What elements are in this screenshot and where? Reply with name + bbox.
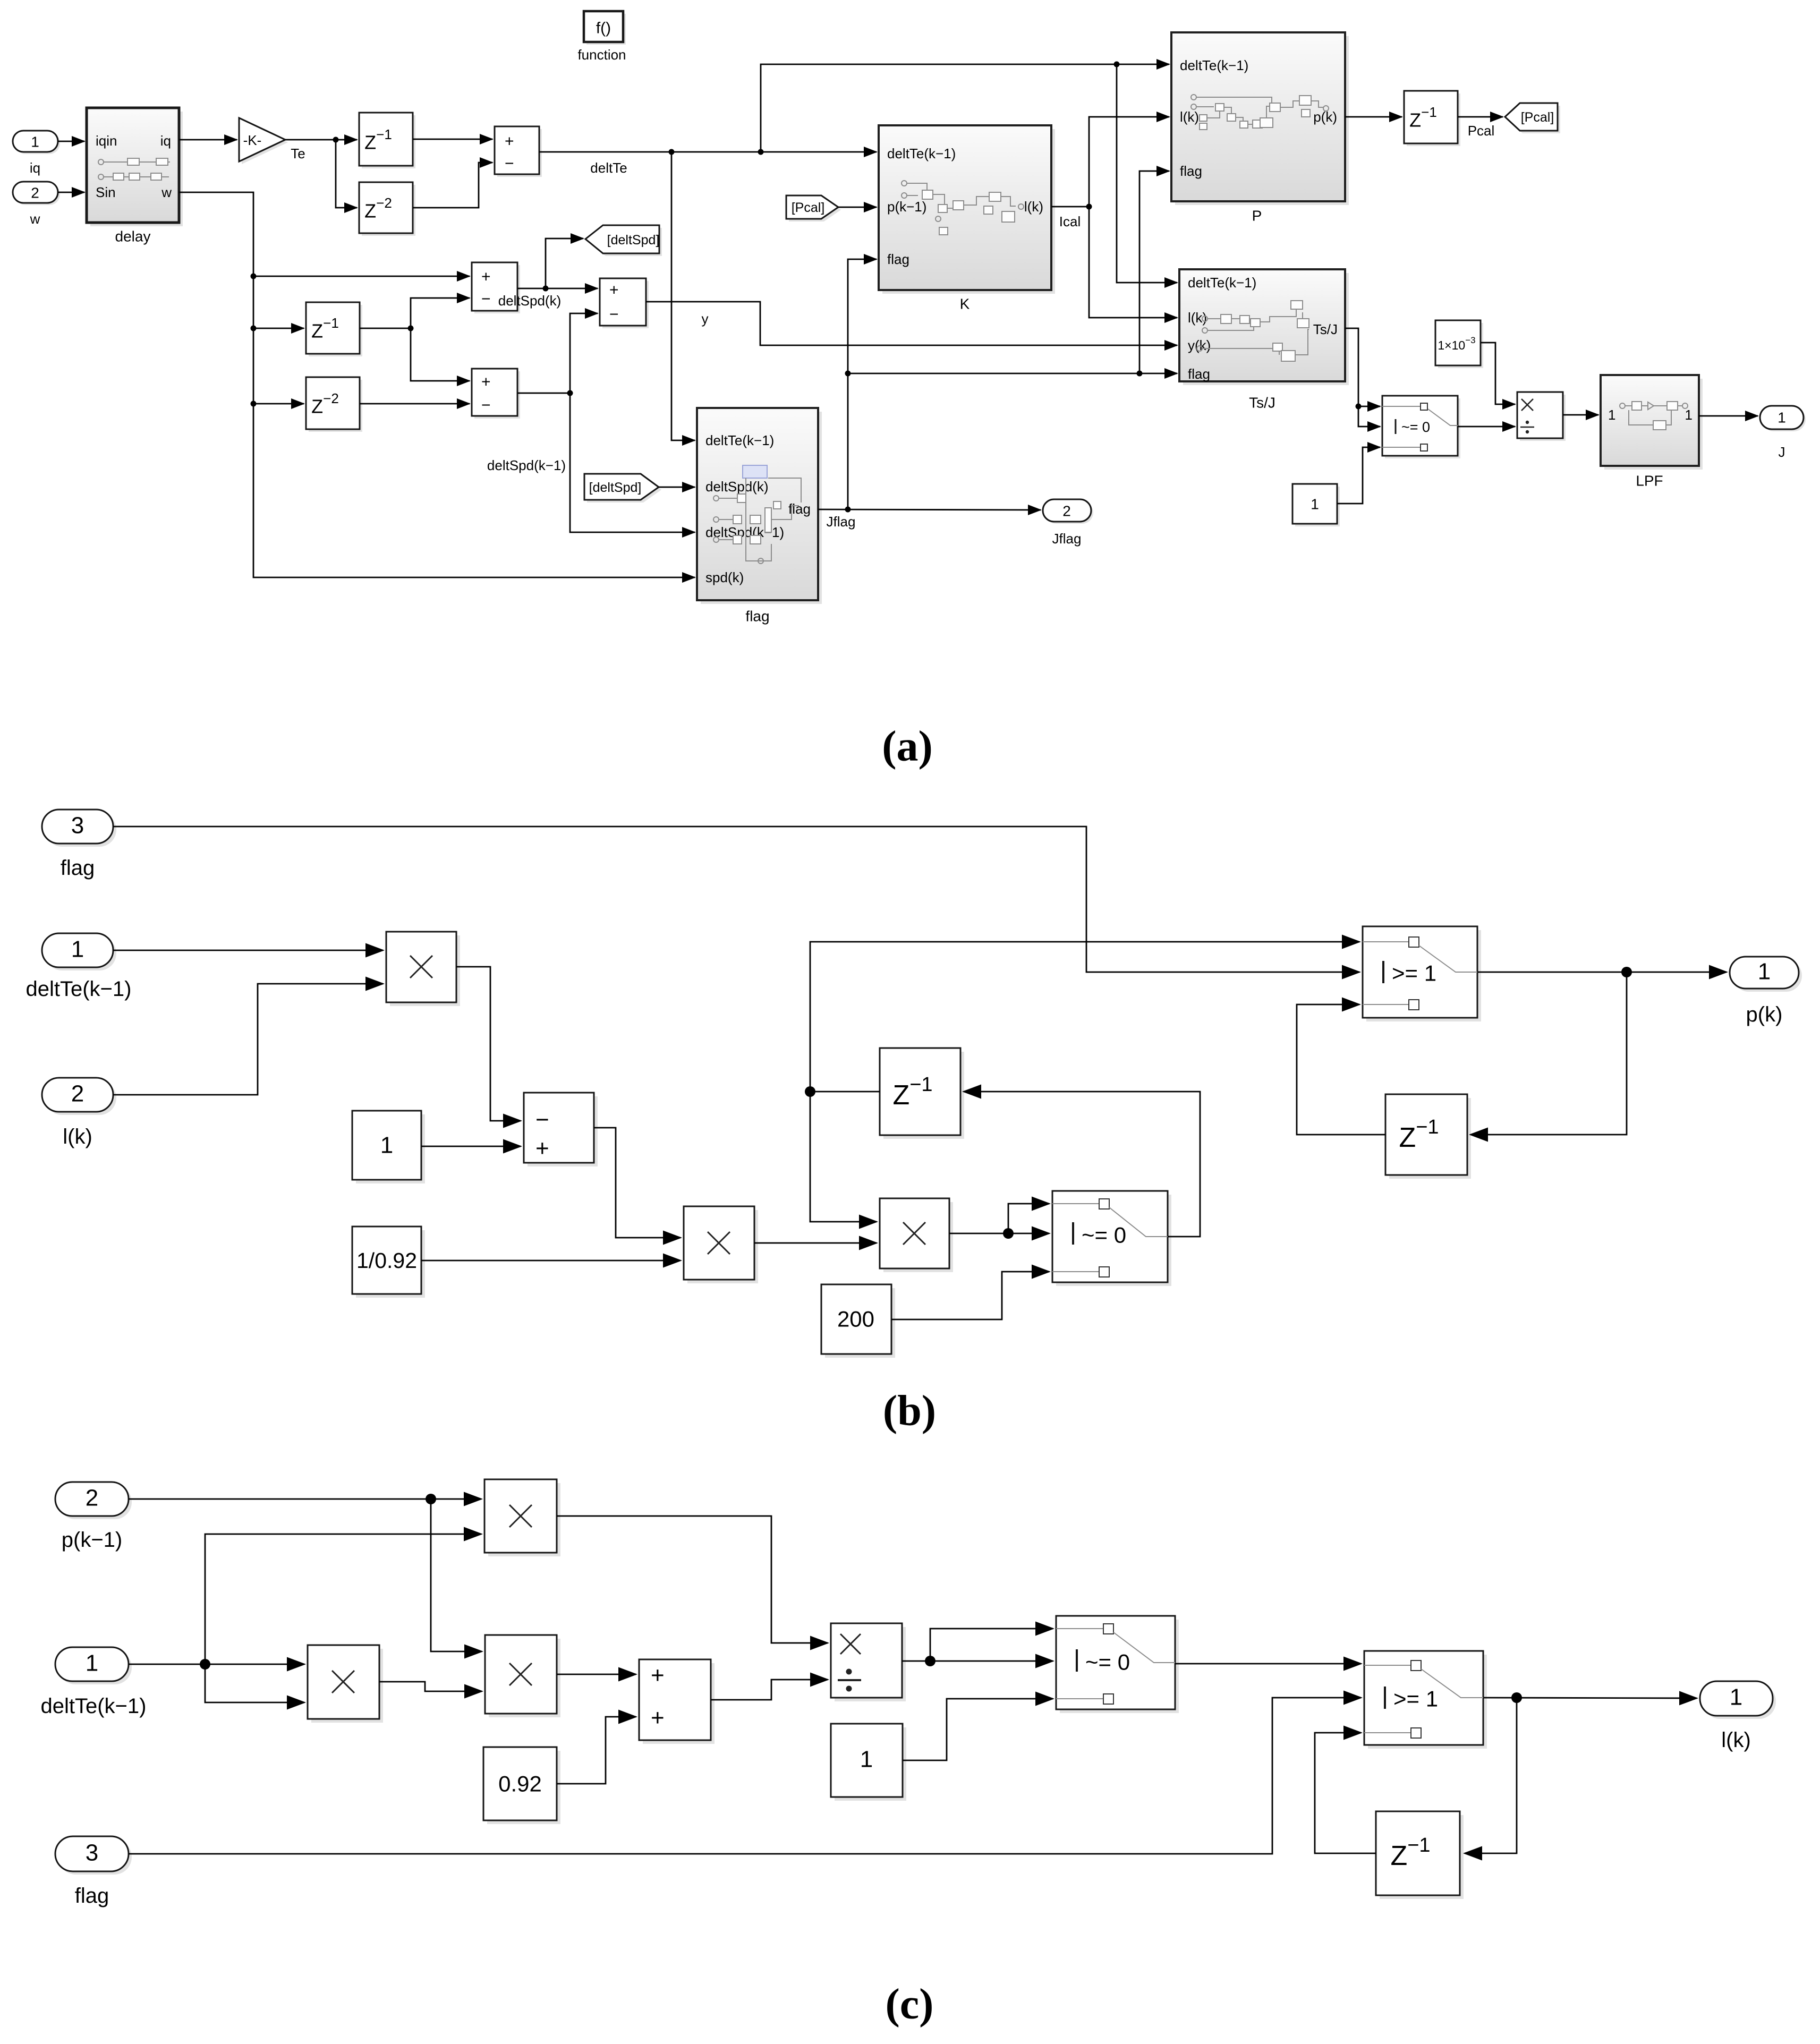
wire: w to z^-1 spd bbox=[253, 328, 304, 329]
constant 1 (c) bbox=[831, 1724, 906, 1801]
svg-text:2: 2 bbox=[31, 185, 39, 201]
wire: product b3 to switch ~=0 control bbox=[949, 1233, 1049, 1234]
svg-text:Jflag: Jflag bbox=[827, 514, 856, 530]
svg-text:Te: Te bbox=[291, 146, 305, 161]
subsystem LPF bbox=[1601, 375, 1703, 489]
unit delay z^-1 (c) bbox=[1376, 1811, 1464, 1899]
wire: Ical up to P.l(k) bbox=[1089, 117, 1169, 207]
svg-text:w: w bbox=[161, 184, 172, 200]
svg-text:(a): (a) bbox=[882, 722, 933, 770]
svg-text:3: 3 bbox=[71, 813, 84, 839]
wire Ical: K.l(k) out bbox=[1051, 206, 1089, 208]
wire: 200 to switch ~=0 in3 bbox=[891, 1272, 1049, 1319]
wire: flag up to P.flag bbox=[1139, 171, 1169, 373]
node after gain bbox=[333, 137, 339, 143]
svg-text:flag: flag bbox=[61, 856, 95, 880]
wire: sum4 out bbox=[517, 393, 570, 394]
svg-text:Sin: Sin bbox=[96, 184, 116, 200]
svg-text:1: 1 bbox=[1685, 407, 1693, 423]
wire: z^-1 left out bbox=[810, 1091, 880, 1093]
wire: z^-2 spd to sum4 - bbox=[360, 403, 470, 405]
svg-text:2: 2 bbox=[71, 1081, 84, 1107]
svg-text:l(k): l(k) bbox=[1188, 310, 1207, 326]
sum3 y bbox=[600, 278, 649, 328]
wire: const 1 to switch in3 bbox=[1337, 447, 1380, 504]
wire: sum b to product b2 in1 bbox=[594, 1128, 681, 1238]
switch ~=0 (b) bbox=[1052, 1191, 1171, 1286]
svg-text:p(k): p(k) bbox=[1746, 1003, 1783, 1026]
switch ~=0 (a) bbox=[1382, 396, 1460, 458]
wire: z^-1 out to switch >=1 in3 bbox=[1315, 1733, 1376, 1853]
svg-text:flag: flag bbox=[745, 608, 769, 625]
product c3 bbox=[485, 1635, 560, 1717]
wire: from tag [deltSpd] to flag.deltSpd(k) bbox=[659, 487, 695, 488]
svg-text:flag: flag bbox=[1180, 163, 1202, 179]
node deltSpd(k-1) bbox=[567, 390, 573, 396]
svg-text:~= 0: ~= 0 bbox=[1082, 1223, 1126, 1248]
subsystem K bbox=[879, 125, 1055, 312]
svg-text:+: + bbox=[651, 1705, 665, 1731]
svg-text:[Pcal]: [Pcal] bbox=[1521, 110, 1554, 125]
svg-text:1/0.92: 1/0.92 bbox=[356, 1248, 417, 1273]
node z^-1 spd out bbox=[408, 326, 414, 331]
node deltTe to flag branch bbox=[669, 149, 675, 155]
wire: down to TsJ.deltTe bbox=[1117, 64, 1177, 283]
svg-text:deltTe(k−1): deltTe(k−1) bbox=[26, 977, 132, 1001]
svg-text:flag: flag bbox=[887, 251, 909, 267]
svg-text:1: 1 bbox=[31, 134, 39, 150]
wire: down to product b3 in1 bbox=[810, 1092, 877, 1222]
wire: gain Te to z^-1 bbox=[285, 139, 357, 141]
svg-text:deltSpd(k−1): deltSpd(k−1) bbox=[487, 457, 566, 473]
wire: node down to z^-2 bbox=[336, 140, 357, 208]
wire: p(k-1) to product c2 in1 bbox=[129, 1498, 481, 1500]
product c1 (deltTe squared) bbox=[308, 1645, 383, 1723]
wire: LPF to outport J bbox=[1699, 415, 1758, 417]
svg-text:200: 200 bbox=[837, 1307, 874, 1332]
svg-text:deltTe(k−1): deltTe(k−1) bbox=[41, 1694, 147, 1718]
svg-text:f(): f() bbox=[596, 20, 611, 37]
svg-text:l(k): l(k) bbox=[1024, 199, 1043, 215]
svg-text:K: K bbox=[960, 296, 970, 312]
goto tag [Pcal] bbox=[1505, 103, 1560, 133]
svg-text:+: + bbox=[651, 1663, 665, 1689]
wire: down to product c1 in2 bbox=[205, 1664, 304, 1702]
wire: w to sum2 + bbox=[253, 276, 470, 277]
svg-text:1: 1 bbox=[71, 936, 84, 963]
switch ~=0 (c) bbox=[1056, 1616, 1179, 1713]
svg-text:w: w bbox=[30, 211, 40, 227]
node p(k) bbox=[1621, 967, 1632, 977]
outport 1 l(k) bbox=[1700, 1681, 1776, 1752]
subsystem delay bbox=[87, 108, 183, 245]
svg-text:(b): (b) bbox=[883, 1386, 936, 1435]
wire: up to switch >=1 in1 bbox=[810, 942, 1359, 1092]
trigger block f() / function bbox=[577, 11, 626, 63]
outport 2 Jflag bbox=[1043, 499, 1093, 547]
subsystem Ts/J bbox=[1179, 269, 1349, 411]
svg-text:deltTe(k−1): deltTe(k−1) bbox=[705, 432, 774, 448]
inport 3 flag (c) bbox=[55, 1836, 132, 1907]
node deltTe to P branch bbox=[758, 149, 764, 155]
sum c (+ +) bbox=[639, 1659, 715, 1744]
svg-text:+: + bbox=[535, 1136, 549, 1162]
constant 1/0.92 bbox=[352, 1227, 425, 1298]
wire: up to switch ~=0 in1 bbox=[930, 1629, 1053, 1661]
constant 200 bbox=[821, 1284, 895, 1358]
svg-text:−: − bbox=[535, 1107, 549, 1133]
node flag to P branch bbox=[1137, 371, 1143, 377]
constant 1 (b) bbox=[352, 1111, 425, 1183]
unit delay z^-1 (Pcal) bbox=[1404, 91, 1460, 146]
wire: product c2 to divide X in bbox=[557, 1516, 828, 1643]
constant 0.92 bbox=[483, 1747, 560, 1824]
wire: delay.iq to gain bbox=[179, 139, 237, 141]
svg-text:0.92: 0.92 bbox=[498, 1772, 542, 1796]
svg-text:2: 2 bbox=[86, 1485, 98, 1511]
svg-text:>= 1: >= 1 bbox=[1392, 961, 1436, 986]
wire: product c3 to sum c in1 bbox=[557, 1674, 636, 1675]
svg-text:(c): (c) bbox=[885, 1980, 933, 2028]
wire: flag up to K.flag bbox=[848, 259, 877, 509]
unit delay z^-1 (b left) bbox=[880, 1048, 964, 1139]
wire: product c1 to product c3 in2 bbox=[379, 1682, 482, 1691]
inport 2 w bbox=[13, 182, 60, 227]
product divide x/ (a) bbox=[1517, 392, 1566, 441]
wire: flag(3) to switch >=1 control bbox=[113, 827, 1359, 972]
svg-text:P: P bbox=[1252, 208, 1262, 224]
svg-text:p(k−1): p(k−1) bbox=[62, 1528, 123, 1552]
wire: Ical down to TsJ.l(k) bbox=[1089, 207, 1177, 318]
svg-text:+: + bbox=[609, 282, 619, 299]
wire: up to sum3 - bbox=[570, 313, 598, 393]
svg-text:delay: delay bbox=[115, 228, 151, 245]
wire: divide out to switch ~=0 control bbox=[902, 1660, 1053, 1662]
svg-text:[deltSpd]: [deltSpd] bbox=[589, 480, 642, 495]
unit delay z^-1 (spd) bbox=[306, 302, 362, 356]
wire: feedback down to z^-1 right in bbox=[1470, 972, 1627, 1135]
svg-text:+: + bbox=[481, 268, 491, 286]
subsystem flag bbox=[697, 408, 822, 625]
inport 3 flag (b) bbox=[42, 810, 116, 880]
goto tag [deltSpd] bbox=[585, 225, 662, 256]
wire: delay.w down to flag.spd(k) bbox=[179, 192, 695, 577]
svg-text:1: 1 bbox=[1778, 410, 1786, 426]
constant 1e-3 bbox=[1435, 320, 1483, 368]
svg-text:p(k−1): p(k−1) bbox=[887, 199, 926, 215]
node p(k-1) bbox=[426, 1494, 436, 1504]
svg-text:~= 0: ~= 0 bbox=[1085, 1650, 1130, 1675]
svg-text:iq: iq bbox=[30, 160, 40, 176]
svg-text:-K-: -K- bbox=[243, 132, 262, 148]
node deltTe to Ts/J branch bbox=[1114, 62, 1120, 67]
wire: z^-1 spd to sum4 + bbox=[411, 328, 470, 381]
node l(k) bbox=[1511, 1692, 1522, 1703]
product b1 bbox=[386, 932, 460, 1006]
switch >=1 (c) bbox=[1364, 1651, 1487, 1749]
svg-text:Pcal: Pcal bbox=[1468, 123, 1495, 139]
wire: deltTe down to flag.deltTe bbox=[671, 152, 695, 440]
svg-text:iq: iq bbox=[160, 133, 171, 149]
svg-text:Ts/J: Ts/J bbox=[1249, 395, 1275, 411]
wire: P.p(k) to z^-1 bbox=[1345, 116, 1402, 118]
wire: const 1 to sum b + bbox=[421, 1146, 521, 1147]
wire: deltTe up to P.deltTe bbox=[761, 64, 1169, 152]
wire: node to switch in1 bbox=[1358, 406, 1380, 407]
product b3 bbox=[880, 1198, 953, 1272]
svg-text:spd(k): spd(k) bbox=[705, 569, 744, 585]
svg-text:Ical: Ical bbox=[1059, 214, 1081, 229]
from tag [deltSpd] bbox=[584, 474, 661, 503]
svg-text:l(k): l(k) bbox=[1721, 1728, 1751, 1752]
wire: flag to TsJ.flag bbox=[848, 373, 1177, 374]
sum b (- +) bbox=[524, 1093, 598, 1166]
svg-text:flag: flag bbox=[1188, 366, 1210, 382]
node flag out bbox=[845, 507, 851, 513]
wire deltTe: sum1 to K bbox=[539, 151, 877, 153]
wire: z^-2 to sum1 - bbox=[413, 163, 492, 208]
inport 1 deltTe(k-1) (c) bbox=[41, 1647, 147, 1718]
svg-text:−: − bbox=[505, 155, 514, 173]
wire: product to LPF bbox=[1563, 414, 1598, 416]
from tag [Pcal] bbox=[786, 195, 841, 222]
svg-text:>= 1: >= 1 bbox=[1393, 1687, 1438, 1711]
node deltTe (c) bbox=[200, 1659, 210, 1670]
wire: deltTe(k-1) to product c1 in1 bbox=[129, 1664, 304, 1665]
svg-text:1: 1 bbox=[1311, 496, 1319, 513]
switch >=1 (b) bbox=[1363, 926, 1481, 1021]
svg-text:LPF: LPF bbox=[1636, 473, 1663, 489]
wire: 1e-3 to product X bbox=[1481, 343, 1515, 404]
node z^-1 left out bbox=[805, 1086, 815, 1097]
svg-text:1: 1 bbox=[860, 1747, 873, 1773]
svg-text:Jflag: Jflag bbox=[1052, 531, 1082, 547]
svg-text:+: + bbox=[481, 373, 491, 391]
svg-text:deltSpd(k): deltSpd(k) bbox=[705, 479, 769, 495]
svg-text:function: function bbox=[577, 47, 626, 63]
svg-text:3: 3 bbox=[86, 1840, 98, 1866]
svg-text:[deltSpd]: [deltSpd] bbox=[607, 233, 660, 248]
wire: TsJ out to switch in1/in2 bbox=[1345, 328, 1380, 427]
svg-text:~= 0: ~= 0 bbox=[1401, 419, 1430, 435]
svg-text:−: − bbox=[481, 291, 491, 308]
inport 2 p(k-1) (c) bbox=[55, 1482, 132, 1552]
sum4 deltSpd(k-1) bbox=[472, 369, 520, 419]
node TsJ out bbox=[1356, 404, 1362, 410]
wire: w to z^-2 spd bbox=[253, 403, 304, 405]
svg-text:1: 1 bbox=[1730, 1684, 1742, 1710]
wire: product b1 to sum b - bbox=[456, 967, 521, 1121]
wire: product b2 to product b3 in2 bbox=[754, 1242, 877, 1244]
wire: switch ~=0 out to switch >=1 in1 bbox=[1175, 1663, 1361, 1665]
svg-text:Ts/J: Ts/J bbox=[1313, 321, 1338, 337]
svg-text:iqin: iqin bbox=[96, 133, 117, 149]
wire: feedback down to z^-1 in bbox=[1465, 1698, 1517, 1853]
inport 1 deltTe(k-1) (b) bbox=[26, 933, 132, 1001]
svg-text:2: 2 bbox=[1062, 503, 1071, 519]
product c2 (p x deltTe) bbox=[484, 1479, 560, 1556]
product divide x/ (c) bbox=[831, 1623, 906, 1701]
wire: inport1 to delay.iqin bbox=[58, 141, 84, 142]
wire: z^-1 to sum1 + bbox=[413, 139, 492, 140]
gain -K- bbox=[239, 118, 305, 164]
wire: switch out to product div bbox=[1458, 426, 1515, 428]
wire: switch ~=0 out to z^-1 left in bbox=[964, 1092, 1200, 1237]
svg-text:1: 1 bbox=[1608, 407, 1615, 423]
svg-text:−: − bbox=[481, 397, 491, 414]
sum1 deltTe bbox=[495, 126, 542, 177]
node deltSpd(k) bbox=[543, 286, 549, 292]
wire: inport2 to delay.Sin bbox=[58, 192, 84, 193]
subsystem P bbox=[1171, 32, 1349, 224]
product b2 bbox=[684, 1206, 758, 1283]
delay z^-2 (Te) bbox=[359, 182, 415, 236]
svg-text:−: − bbox=[609, 306, 619, 323]
svg-text:deltSpd(k): deltSpd(k) bbox=[498, 293, 562, 309]
wire: const 1 to switch ~=0 in3 bbox=[903, 1699, 1053, 1760]
wire: flag to switch >=1 control bbox=[129, 1698, 1361, 1854]
node w to z^-2 bbox=[251, 401, 257, 407]
wire Pcal: z^-1 to goto [Pcal] bbox=[1458, 116, 1503, 118]
wire: down to product c3 in1 bbox=[431, 1499, 482, 1651]
wire: l(k)(2) to product b1 in2 bbox=[113, 984, 383, 1095]
outport 1 J bbox=[1760, 406, 1806, 460]
wire y: sum3 to TsJ.y(k) bbox=[646, 302, 1177, 345]
svg-text:y: y bbox=[702, 311, 709, 327]
inport 2 l(k) (b) bbox=[42, 1078, 116, 1148]
svg-text:1: 1 bbox=[380, 1132, 393, 1159]
wire: deltTe(1) to product b1 in1 bbox=[113, 950, 383, 951]
svg-text:1: 1 bbox=[86, 1650, 98, 1676]
wire: up to switch ~=0 in1 bbox=[1008, 1204, 1049, 1233]
svg-text:deltTe(k−1): deltTe(k−1) bbox=[887, 146, 956, 161]
svg-text:1: 1 bbox=[1758, 959, 1771, 985]
wire Jflag: flag out to outport 2 bbox=[818, 509, 1041, 510]
constant 1 (a) bbox=[1292, 484, 1340, 526]
svg-text:deltTe(k−1): deltTe(k−1) bbox=[1180, 57, 1248, 73]
node w to z^-1 bbox=[251, 326, 257, 331]
wire: z^-1 right out to switch >=1 in3 bbox=[1297, 1004, 1385, 1135]
sum2 deltSpd(k) bbox=[472, 262, 520, 313]
node Ical bbox=[1086, 204, 1092, 210]
node product b3 out bbox=[1003, 1228, 1014, 1239]
svg-text:+: + bbox=[505, 133, 514, 150]
wire deltSpd(k): sum2 to sum3 + bbox=[517, 288, 598, 289]
svg-text:deltTe: deltTe bbox=[590, 160, 627, 176]
wire: from tag [Pcal] to K.p(k-1) bbox=[838, 207, 877, 208]
wire: 1/0.92 to product b2 in2 bbox=[421, 1260, 681, 1262]
svg-text:deltTe(k−1): deltTe(k−1) bbox=[1188, 275, 1256, 291]
svg-text:flag: flag bbox=[75, 1884, 109, 1907]
svg-text:l(k): l(k) bbox=[63, 1125, 92, 1148]
delay z^-2 (spd) bbox=[306, 377, 362, 432]
wire: z^-1 spd to sum2 - bbox=[360, 298, 470, 328]
node w to sum2 bbox=[251, 274, 257, 279]
wire: up to product c2 in2 bbox=[205, 1534, 481, 1664]
unit delay z^-1 (Te) bbox=[359, 113, 415, 168]
svg-text:J: J bbox=[1779, 444, 1785, 460]
unit delay z^-1 (b right) bbox=[1385, 1094, 1471, 1179]
wire: up to goto [deltSpd] bbox=[546, 239, 583, 288]
inport 1 iq bbox=[13, 131, 60, 176]
wire: switch >=1 out to outport l(k) bbox=[1483, 1698, 1697, 1698]
node flag branch right bbox=[845, 371, 851, 377]
node divide out bbox=[925, 1656, 935, 1666]
svg-text:l(k): l(k) bbox=[1180, 109, 1199, 125]
wire: switch >=1 out to outport p(k) bbox=[1477, 972, 1727, 973]
outport 1 p(k) bbox=[1730, 957, 1802, 1026]
svg-text:[Pcal]: [Pcal] bbox=[792, 200, 825, 215]
wire: sum c to divide in bbox=[711, 1680, 828, 1700]
wire: down to flag.deltSpd(k-1) bbox=[570, 393, 695, 532]
wire: 0.92 to sum c in2 bbox=[557, 1717, 636, 1784]
